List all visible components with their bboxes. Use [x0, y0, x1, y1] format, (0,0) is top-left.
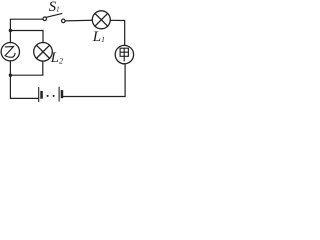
wire meter jia to bottom rail: [63, 64, 126, 97]
svg-text:L2: L2: [50, 50, 63, 66]
wire top rail left: [10, 19, 43, 42]
wire switch to lamp L1: [65, 19, 92, 22]
wire meter yi bottom: [9, 61, 11, 75]
node junction dot lower-left: [9, 74, 12, 77]
switch S1 terminal left: [43, 17, 47, 21]
wire branch to lamp L2 top: [10, 31, 43, 43]
dot between cells right: [53, 95, 55, 97]
lamp L1: [92, 11, 110, 29]
lamp L2: [34, 43, 53, 62]
battery cell 2 short thick plate: [61, 90, 64, 98]
glyph 甲 inside meter: [120, 48, 128, 61]
wire L1 to meter jia: [110, 20, 124, 45]
node junction dot upper-left: [9, 29, 12, 32]
battery cell 1 short thick plate: [40, 91, 43, 99]
glyph 乙 inside meter: [5, 47, 15, 58]
dot between cells left: [47, 95, 49, 97]
svg-text:L1: L1: [92, 29, 105, 45]
switch S1 blade: [46, 14, 62, 18]
op meter YI (meter 乙): [1, 43, 19, 61]
wire bottom rail left: [10, 75, 38, 98]
switch S1 terminal right: [62, 19, 66, 23]
wire lamp L2 bottom to junction: [10, 61, 42, 75]
op meter JIA (ammeter 甲): [115, 45, 133, 63]
battery cell 2 long plate: [58, 87, 60, 101]
battery cell 1 long plate: [38, 88, 40, 102]
svg-text:S1: S1: [49, 0, 60, 15]
